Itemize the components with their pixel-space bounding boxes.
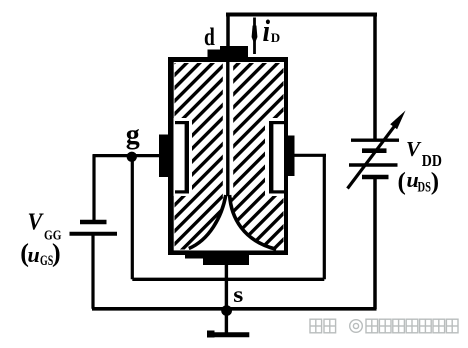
svg-text:V: V (28, 208, 44, 235)
svg-text:g: g (126, 120, 140, 151)
svg-text:DS: DS (418, 178, 431, 195)
svg-text:V: V (406, 137, 422, 161)
svg-text:d: d (204, 22, 215, 50)
svg-text:s: s (233, 282, 243, 307)
svg-text:): ) (431, 168, 439, 195)
svg-text:D: D (271, 30, 280, 45)
svg-text:u: u (28, 242, 40, 267)
svg-text:i: i (263, 14, 271, 48)
svg-text:(: ( (398, 168, 406, 195)
svg-text:): ) (52, 239, 61, 268)
